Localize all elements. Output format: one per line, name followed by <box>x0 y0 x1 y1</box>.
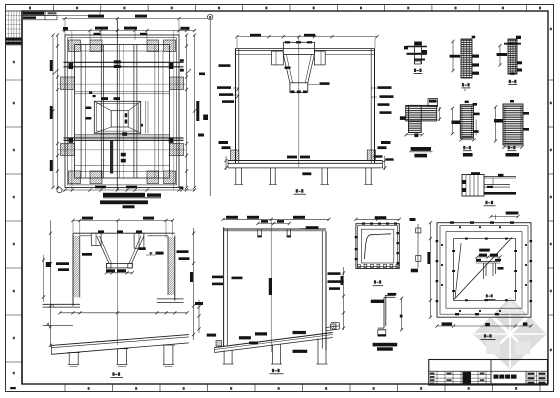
detail D4 labels <box>411 147 431 151</box>
top-left title boxes <box>22 11 45 16</box>
title block left entries <box>430 373 435 375</box>
title block outer <box>429 360 548 386</box>
plan view beam edge line <box>81 51 163 172</box>
lower section piles <box>223 351 225 365</box>
section1 hopper slopes <box>97 236 109 263</box>
plan view inner wall face <box>75 45 170 179</box>
opening detail inner square <box>454 239 516 301</box>
section2 floor end dims <box>225 156 227 170</box>
opening detail left dimension <box>429 223 431 318</box>
section1 right wall hatched <box>174 236 176 301</box>
sump hopper inner blobs <box>125 113 128 117</box>
section2 left wall <box>235 49 237 164</box>
plan top inner dimension line <box>62 30 195 32</box>
hopper sloped walls <box>283 55 290 83</box>
embed plate rebar hook <box>365 234 392 259</box>
corner pilaster hatched bottom-right <box>164 171 176 184</box>
detail D6 labels <box>508 146 510 149</box>
interior thin vertical lines <box>80 45 82 179</box>
hanger bar top tick <box>388 293 397 295</box>
interior thin horizontal pairs <box>75 91 170 93</box>
opening detail diagonal rebar <box>454 238 512 300</box>
lower section right wall <box>321 231 323 348</box>
section1 left wall foot <box>43 303 81 305</box>
plan view outer wall second line <box>68 38 177 185</box>
corner pilaster hatched top-right <box>164 40 176 52</box>
sump hopper diagonals <box>94 101 111 110</box>
plan top outer dimension line <box>62 18 207 20</box>
lower section right end bracket <box>326 326 339 328</box>
title block vertical dividers <box>490 360 492 386</box>
section1 sloped base slab <box>51 335 189 346</box>
detail D2 column section 1-1 <box>461 39 472 78</box>
hanger bar left note <box>371 300 384 303</box>
section1 far-left short dim <box>43 255 45 302</box>
opening detail top-right note <box>506 212 519 215</box>
hopper throat <box>290 83 308 93</box>
section1 left wall hatched <box>72 233 74 306</box>
detail D7 wall corner W-1 <box>462 175 484 197</box>
hopper left bracket <box>272 51 284 65</box>
opening detail label W-2 <box>484 334 486 337</box>
title block top row line <box>429 370 548 372</box>
section2 top dimension line <box>237 36 377 38</box>
opening sub-detail A-A <box>476 260 500 262</box>
detail D3 column section 1-2 <box>508 39 517 74</box>
section1 throat dimension <box>106 272 132 274</box>
section cut line lower with end markers <box>64 137 184 139</box>
section1 wall outside notes <box>56 262 69 265</box>
detail D4 manhole corner <box>406 105 437 121</box>
section1 piles <box>68 353 70 365</box>
plan left dimension lines <box>57 35 59 188</box>
hopper throat note <box>308 84 319 86</box>
right tick band <box>547 11 549 384</box>
section1 heading text <box>100 200 148 204</box>
section2 floor slab <box>228 160 383 162</box>
opening detail outer square <box>437 223 531 318</box>
plan right dimension lines <box>186 35 188 188</box>
hanger bar right dimension <box>401 298 403 330</box>
opening detail second square <box>440 226 528 315</box>
title block right cells <box>536 371 538 385</box>
section2 view title 2-2 <box>296 189 298 192</box>
section2 floor notes <box>287 156 297 159</box>
plan view outer wall <box>65 35 179 188</box>
detail D3 label <box>509 80 511 83</box>
section cut line upper with end markers <box>64 61 184 63</box>
bottom tick band <box>64 384 66 392</box>
top wall stiffener hatched <box>90 40 102 52</box>
lower section wall notes <box>212 276 223 279</box>
top tick band <box>6 10 549 12</box>
title block left grid <box>429 374 491 376</box>
section2 roof slab lines <box>236 49 284 51</box>
sump hopper extension lines right <box>145 101 147 134</box>
lower section roof level note <box>306 226 319 229</box>
section1 roof lines <box>73 232 175 234</box>
section1 right wall foot <box>157 298 184 300</box>
section1 view title 1-1 <box>112 372 114 375</box>
left margin strip and signature block <box>21 11 23 384</box>
section1 ground line with break <box>43 325 74 327</box>
lower section roof <box>224 228 326 230</box>
lower section left dim cluster <box>198 300 200 333</box>
embed plate label A-A <box>374 280 376 283</box>
hopper collar <box>283 42 314 54</box>
section1 foot dimension line <box>60 312 187 314</box>
detail D6 column section A-2 <box>503 104 523 145</box>
left wall pilaster lower <box>61 144 75 156</box>
section1 left vertical dimension <box>49 220 51 347</box>
section1 hopper collar ticks <box>98 230 104 233</box>
detail D1 wall tee joint <box>415 42 422 46</box>
section2 dim extension lines <box>236 38 238 49</box>
lower section left end hatch <box>216 341 222 347</box>
sump hopper plan outer rect <box>94 101 140 133</box>
plan rotated dim text below hopper <box>110 141 113 174</box>
corner pilaster hatched bottom-left <box>69 171 81 184</box>
section2 centre line <box>298 37 300 167</box>
plan bottom dimension line <box>62 189 195 191</box>
detail D2 label <box>462 83 464 86</box>
corner pilaster hatched top-left <box>69 40 81 52</box>
section1 right vertical dimension <box>193 228 195 340</box>
section1 interior note <box>139 247 146 250</box>
title block drawing name <box>494 375 499 379</box>
lower section sloped base <box>215 333 333 348</box>
embed plate border ticks <box>362 223 365 225</box>
hopper right bracket <box>314 51 325 65</box>
lower section height note rotated <box>269 278 272 295</box>
detail D1 label <box>414 69 416 72</box>
opening detail third square <box>446 232 522 309</box>
detail D5 column section A-1 <box>460 105 473 138</box>
section2 left wall foot detail <box>231 150 239 160</box>
lower section hopper stubs <box>258 229 262 237</box>
section1 level mark <box>156 252 164 255</box>
lower section view title 2-2 <box>272 369 274 372</box>
sump hopper plan throat rect <box>111 111 128 127</box>
right wall pilaster lower <box>170 144 184 156</box>
opening detail bottom dimension <box>437 325 531 327</box>
lower section collar dimension <box>258 222 289 224</box>
section2 left wall notes <box>219 64 231 67</box>
detail D5 labels <box>463 146 465 149</box>
grid bubble 1 <box>57 188 62 193</box>
watermark logo diamond <box>473 297 546 369</box>
section1 wall top extension lines <box>72 220 74 233</box>
section2 right wall <box>370 49 372 164</box>
section1 hopper throat <box>106 263 132 268</box>
opening detail inner edge ticks <box>452 250 455 252</box>
embed plate detail inner rects <box>358 226 398 267</box>
embed plate bottom anchor squares <box>358 264 361 267</box>
plan grey axis lines <box>71 31 73 191</box>
grid bubble A <box>208 14 213 19</box>
section2 right wall notes <box>378 86 392 89</box>
section2 right wall foot detail <box>367 150 375 160</box>
bottom wall stiffener hatched <box>90 171 102 184</box>
sump hopper plan second rect <box>97 104 139 132</box>
lower section right dim cluster <box>343 267 345 330</box>
interior beam line pairs vertical <box>100 45 102 179</box>
plan extension lines to top dims <box>64 20 66 35</box>
detail D7 label W-1 <box>485 201 487 204</box>
section1 centre line <box>117 220 119 345</box>
grid line down from bubble <box>209 20 211 196</box>
lower section left wall <box>223 227 225 347</box>
section1 interior level note <box>82 253 92 256</box>
lower section top dimension <box>223 218 329 220</box>
embed plate detail outer <box>356 224 399 269</box>
section1 hopper left bracket <box>91 233 101 245</box>
plan right vertical note <box>196 101 199 121</box>
hanger bar shape <box>385 295 396 297</box>
plan view title <box>103 193 145 197</box>
plan centre grid line <box>116 20 118 191</box>
section1 hopper right bracket <box>134 233 144 248</box>
embed plate side bar <box>417 224 419 268</box>
embed plate top dimension <box>356 218 399 220</box>
left wall pilaster upper <box>61 77 75 90</box>
lower section centre line <box>270 219 272 352</box>
section1 top dimension line <box>73 219 173 221</box>
hanger bar caption <box>373 343 398 347</box>
lower section slab notes <box>239 336 251 339</box>
right wall pilaster upper <box>170 77 184 90</box>
opening detail border ticks <box>450 221 454 223</box>
section2 piles <box>235 168 237 185</box>
